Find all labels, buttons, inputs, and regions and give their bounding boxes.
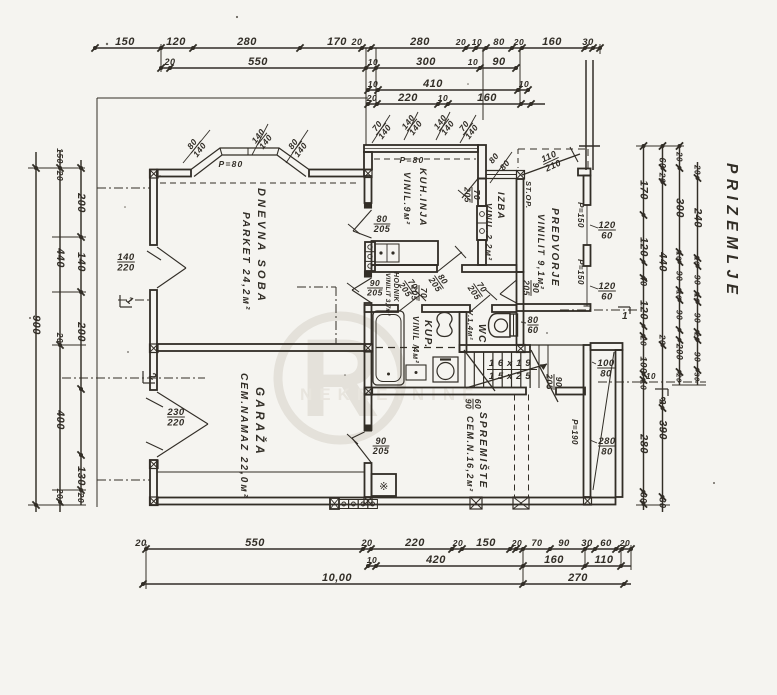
right dim col A	[638, 146, 650, 510]
section 1 right dashdot	[560, 307, 640, 322]
svg-text:140: 140	[117, 252, 135, 263]
wall step LR-kitchen	[364, 152, 372, 170]
svg-text:※: ※	[379, 481, 389, 493]
svg-text:10: 10	[675, 290, 684, 300]
label VINIL 9m2	[402, 172, 412, 226]
label SPREMISTE	[477, 412, 490, 490]
porch dashed outline	[518, 149, 588, 168]
LR interior dashdot	[297, 287, 336, 344]
label PRIZEMLJE	[723, 163, 740, 299]
toilet	[489, 314, 518, 338]
section 1 left	[97, 188, 150, 307]
svg-text:80: 80	[376, 214, 387, 224]
svg-text:60: 60	[600, 538, 612, 549]
svg-text:10: 10	[468, 57, 478, 67]
svg-text:PREDVORJE: PREDVORJE	[549, 208, 560, 288]
svg-text:140: 140	[75, 252, 87, 272]
label CEM N 162	[465, 416, 475, 493]
label V 1,4m2	[466, 310, 475, 340]
section 2 left	[62, 370, 205, 383]
svg-text:100: 100	[597, 358, 615, 369]
section dashdot bottom left	[97, 479, 150, 481]
door corridor-WC swing	[470, 290, 497, 312]
svg-text:390: 390	[657, 420, 669, 440]
svg-text:90: 90	[675, 310, 685, 320]
svg-text:VINIL.9м²: VINIL.9м²	[402, 172, 412, 226]
label 70/205 kitchen top door	[463, 186, 483, 203]
label KUP	[422, 320, 433, 349]
svg-text:10: 10	[639, 380, 649, 390]
svg-text:P=190: P=190	[570, 419, 579, 445]
svg-text:410: 410	[422, 78, 443, 90]
svg-text:280: 280	[597, 436, 616, 447]
wall spine garage upper	[365, 351, 372, 430]
right dim bottom connector	[636, 385, 706, 505]
svg-text:420: 420	[425, 554, 446, 566]
svg-text:20: 20	[511, 538, 522, 548]
svg-text:60: 60	[473, 399, 483, 409]
xbox top LR right	[364, 170, 372, 178]
svg-text:ST.OP.: ST.OP.	[524, 181, 533, 209]
wall predvorje left lower	[517, 272, 524, 345]
wall left door 140/220 opening	[147, 245, 186, 290]
label P=190	[570, 419, 579, 445]
label 140/220	[116, 252, 135, 274]
svg-text:120: 120	[598, 281, 616, 292]
door kitchen-corridor swing	[437, 246, 466, 272]
wall kitchen top	[364, 145, 478, 152]
label WC	[476, 324, 487, 344]
svg-text:VINILIT 9,1м²: VINILIT 9,1м²	[536, 214, 546, 290]
wall stairs bottom right	[556, 388, 585, 395]
svg-text:1: 1	[622, 311, 628, 322]
left dim col 440-400	[54, 148, 66, 512]
svg-text:30: 30	[658, 497, 668, 508]
wall left exterior upper	[150, 170, 157, 246]
label KUHINJA	[417, 168, 428, 227]
svg-text:KUP.: KUP.	[422, 320, 433, 349]
label HODNIK	[392, 272, 399, 303]
paper specks	[29, 16, 715, 484]
wall left garage door opening	[146, 392, 208, 457]
back door swings	[531, 350, 558, 402]
grate cells	[330, 498, 377, 509]
window P=150 lower	[576, 259, 591, 306]
svg-text:200: 200	[675, 343, 685, 361]
top dim row 4	[364, 92, 545, 108]
kitchen counter	[372, 241, 439, 265]
svg-text:10: 10	[693, 293, 702, 303]
wall left exterior mid	[150, 290, 157, 390]
terrace diagonal	[593, 352, 614, 490]
svg-text:205: 205	[366, 288, 383, 298]
svg-text:300: 300	[674, 198, 686, 218]
wall spine garage lower	[365, 463, 372, 497]
label GARAZA	[253, 387, 266, 457]
svg-text:10: 10	[368, 57, 378, 67]
svg-text:220: 220	[116, 263, 135, 274]
frame line top	[97, 97, 368, 99]
svg-text:400: 400	[54, 409, 66, 430]
xbox izba top right	[517, 171, 525, 180]
svg-text:20: 20	[55, 488, 65, 499]
svg-text:20: 20	[350, 37, 362, 47]
svg-text:60: 60	[601, 231, 613, 242]
svg-text:160: 160	[477, 92, 497, 104]
svg-text:80: 80	[527, 315, 538, 325]
svg-text:280: 280	[638, 433, 650, 454]
cabinet	[406, 365, 426, 380]
svg-text:10: 10	[646, 372, 656, 381]
svg-text:VINILIT 3,7м²: VINILIT 3,7м²	[384, 273, 391, 316]
svg-text:20: 20	[693, 331, 702, 342]
svg-text:20: 20	[55, 332, 65, 343]
entrance door swing	[522, 147, 580, 175]
svg-text:IZBA: IZBA	[495, 192, 506, 220]
svg-text:20: 20	[55, 170, 65, 181]
svg-text:280: 280	[409, 36, 430, 48]
wall right exterior upper	[584, 176, 591, 206]
svg-text:160: 160	[544, 554, 564, 566]
svg-text:30: 30	[581, 538, 593, 549]
wall bath bottom	[365, 388, 527, 395]
svg-text:70: 70	[419, 288, 429, 298]
svg-text:205: 205	[545, 373, 555, 390]
svg-text:90: 90	[370, 278, 380, 288]
chimney cells izba wall	[477, 206, 487, 240]
svg-text:70: 70	[531, 538, 542, 548]
svg-text:WC: WC	[476, 324, 487, 344]
svg-text:900: 900	[30, 315, 42, 335]
dashed lintel LR	[160, 182, 360, 184]
svg-text:KUH.INJA: KUH.INJA	[417, 168, 428, 227]
svg-text:30: 30	[639, 492, 649, 503]
svg-text:1 5 x 2 5: 1 5 x 2 5	[489, 371, 531, 382]
bath dashed line	[376, 347, 457, 349]
svg-text:20: 20	[693, 164, 702, 175]
wall spine upper	[365, 176, 372, 208]
svg-text:550: 550	[245, 537, 265, 549]
wall izba left lower	[478, 240, 486, 265]
wall spine mid	[365, 303, 372, 344]
label 70/205 wc door	[465, 277, 491, 302]
heater box	[372, 474, 397, 496]
xbox spine-garage junction	[364, 344, 372, 352]
xbox bottom shaft	[513, 497, 529, 509]
stairs risers	[465, 352, 530, 388]
wall predvorje top	[578, 169, 591, 176]
svg-text:130: 130	[75, 466, 87, 486]
svg-text:90: 90	[675, 271, 685, 281]
svg-text:P=150: P=150	[576, 202, 585, 228]
svg-text:80: 80	[600, 369, 612, 380]
svg-text:VINIL.2.2м²: VINIL.2.2м²	[484, 203, 494, 261]
svg-text:200: 200	[75, 192, 87, 213]
wall LR-garage	[157, 344, 365, 351]
left dim connectors	[28, 168, 86, 505]
washing machine	[433, 357, 458, 382]
wall corridor bottom mid	[422, 305, 470, 312]
svg-text:90: 90	[464, 399, 474, 409]
label ST.OP.	[524, 181, 533, 209]
svg-text:220: 220	[404, 537, 425, 549]
svg-text:205: 205	[372, 446, 390, 456]
svg-text:P=80: P=80	[219, 159, 244, 169]
label P=80 LR	[219, 159, 244, 169]
svg-text:20: 20	[675, 372, 684, 383]
terrace outer wall	[616, 350, 623, 497]
svg-text:20: 20	[513, 37, 524, 47]
svg-text:PRIZEMLJE: PRIZEMLJE	[723, 163, 740, 299]
xbox wc wall junction	[517, 345, 526, 353]
label VINILIT 9,1m2	[536, 214, 546, 290]
label 90/205 garage door	[372, 436, 390, 456]
svg-text:20: 20	[658, 334, 668, 345]
svg-text:110: 110	[594, 554, 613, 566]
svg-text:120: 120	[166, 36, 186, 48]
svg-text:DNEVNA SOBA: DNEVNA SOBA	[255, 188, 267, 304]
svg-text:20: 20	[163, 57, 175, 67]
washbasin	[437, 313, 452, 337]
label 100/80	[592, 358, 615, 380]
svg-text:20: 20	[455, 37, 466, 47]
top dim connectors	[161, 44, 600, 145]
wall kitchen bottom	[372, 265, 438, 272]
label 80/60 wc window	[521, 315, 539, 335]
wall kitchen top right jamb	[478, 145, 486, 179]
svg-text:150: 150	[115, 36, 135, 48]
label CEM NAMAZ	[238, 373, 249, 499]
right dim col B	[657, 146, 669, 512]
svg-text:10: 10	[438, 93, 448, 103]
labels above LR bay	[183, 124, 309, 163]
svg-text:80: 80	[601, 447, 613, 458]
xbox bottom right	[584, 497, 592, 505]
wall bath-WC	[460, 312, 467, 352]
label 70/205 bath door	[396, 274, 422, 299]
outside steps	[530, 345, 548, 388]
svg-text:90: 90	[693, 275, 703, 285]
svg-text:205: 205	[373, 224, 391, 234]
label VINIL 4m2	[411, 316, 420, 364]
label 80/205 corridor b	[426, 269, 452, 294]
xbox bath bottom left	[365, 388, 373, 396]
door corridor-bath swing	[398, 290, 426, 312]
svg-text:VINIL /4м²: VINIL /4м²	[411, 316, 420, 364]
svg-text:550: 550	[248, 56, 268, 68]
svg-text:205: 205	[463, 186, 473, 203]
svg-text:10: 10	[367, 555, 377, 565]
terrace top wall	[591, 343, 623, 350]
svg-text:60: 60	[658, 157, 668, 168]
svg-text:10: 10	[368, 79, 378, 89]
wall WC bottom	[460, 345, 531, 352]
wall predvorje left	[517, 179, 524, 272]
wall bottom exterior	[157, 498, 616, 505]
svg-text:20: 20	[76, 492, 86, 503]
svg-text:20: 20	[619, 538, 630, 548]
svg-text:R: R	[300, 317, 379, 440]
svg-text:90: 90	[375, 436, 386, 446]
labels 80 80 izba window	[487, 151, 512, 183]
svg-text:120: 120	[638, 237, 650, 257]
left dim col 900	[30, 152, 42, 512]
label 70/205 kitchen door a	[410, 284, 430, 301]
svg-text:240: 240	[692, 207, 704, 228]
xbox left mid	[150, 344, 159, 353]
wall left exterior lower	[150, 460, 157, 505]
svg-text:150: 150	[476, 537, 496, 549]
svg-text:2: 2	[659, 396, 666, 407]
door kitchen top-right swing	[458, 179, 478, 201]
svg-text:10,00: 10,00	[322, 572, 352, 584]
wall right lower exterior	[584, 345, 591, 497]
svg-text:90: 90	[554, 377, 564, 387]
storage shaft dashed	[515, 395, 529, 498]
label 60/90 storage	[464, 399, 484, 410]
xbox left low	[150, 460, 159, 469]
svg-text:1 6 x 1 9: 1 6 x 1 9	[489, 358, 531, 369]
door garage-storage swing	[347, 425, 372, 463]
svg-text:200: 200	[75, 321, 87, 342]
label 120/60 lower	[590, 281, 616, 303]
svg-text:10: 10	[472, 37, 482, 47]
svg-text:300: 300	[416, 56, 436, 68]
svg-text:20: 20	[134, 538, 147, 549]
label DNEVNA SOBA	[255, 188, 267, 304]
xbox left bottom	[150, 497, 159, 506]
svg-text:440: 440	[657, 251, 669, 272]
bay window living room	[191, 148, 309, 177]
svg-text:20: 20	[360, 538, 372, 548]
wall predvorje bottom	[517, 304, 591, 311]
right dim col C	[674, 146, 686, 385]
label 280/80	[590, 436, 616, 458]
svg-text:230: 230	[166, 407, 185, 418]
label P=80 kitchen	[400, 155, 425, 165]
svg-text:GARAŽA: GARAŽA	[253, 387, 266, 457]
svg-text:10: 10	[675, 251, 684, 261]
label 110/210	[538, 148, 562, 174]
svg-text:PARKET 24,2м²: PARKET 24,2м²	[240, 212, 251, 311]
section 2 right dashdot	[598, 372, 706, 407]
wall corridor bottom left	[365, 305, 399, 312]
wall kitchen bottom right	[462, 265, 517, 272]
top dim row 2	[157, 56, 519, 72]
right dim col D	[692, 162, 704, 385]
bottom dim row A	[134, 537, 634, 553]
svg-text:205: 205	[522, 279, 532, 296]
svg-text:40: 40	[639, 274, 649, 286]
svg-text:220: 220	[397, 92, 418, 104]
svg-text:160: 160	[542, 36, 562, 48]
label 120/60 upper	[590, 220, 616, 242]
wall izba left upper	[478, 179, 486, 207]
window P=150 upper	[576, 202, 591, 245]
label IZBA	[495, 192, 506, 220]
wall corridor bottom right	[492, 305, 517, 312]
svg-text:20: 20	[675, 151, 684, 162]
svg-text:20: 20	[452, 538, 463, 548]
svg-text:30: 30	[693, 372, 702, 382]
labels above kitchen wall	[368, 112, 480, 143]
bathtub	[373, 311, 404, 385]
label VINIL 2.2m2	[484, 203, 494, 261]
watermark letter R	[300, 317, 379, 440]
svg-text:CEM.NAMAZ 22,0м²: CEM.NAMAZ 22,0м²	[238, 373, 249, 499]
svg-text:90: 90	[693, 352, 703, 362]
wall stairs top right	[530, 344, 591, 346]
frame line left	[96, 98, 98, 507]
right dim top connector	[636, 142, 684, 149]
svg-text:HODNIK: HODNIK	[392, 272, 399, 303]
watermark wordmark	[300, 385, 481, 404]
svg-text:170: 170	[638, 180, 650, 200]
svg-text:60: 60	[527, 325, 538, 335]
svg-text:10: 10	[693, 256, 702, 266]
svg-text:170: 170	[327, 36, 347, 48]
svg-text:90: 90	[558, 538, 570, 549]
xbox left top	[150, 170, 159, 179]
label PREDVORJE	[549, 208, 560, 288]
svg-text:P=80: P=80	[400, 155, 425, 165]
svg-text:120: 120	[638, 300, 650, 320]
wall right exterior mid	[584, 245, 591, 266]
xbox bottom spine	[364, 497, 372, 505]
svg-text:150: 150	[55, 148, 65, 164]
svg-text:120: 120	[598, 220, 616, 231]
label 90/205 corridor door	[366, 278, 383, 298]
label 80/205 LR door	[373, 214, 391, 234]
svg-text:SPREMIŠTE: SPREMIŠTE	[477, 412, 490, 490]
bottom dim connectors	[146, 544, 631, 589]
watermark logo ring	[278, 316, 402, 440]
top right double line	[579, 60, 600, 170]
svg-text:280: 280	[236, 36, 257, 48]
label VINILIT 37	[384, 273, 391, 316]
wall top LR left part	[157, 170, 191, 177]
label 90/205 back door	[545, 373, 565, 390]
svg-text:V.1,4м²: V.1,4м²	[466, 310, 475, 340]
label 230/220	[166, 407, 185, 429]
svg-text:80: 80	[493, 37, 505, 48]
dashed lintel kitchen	[374, 158, 476, 160]
svg-text:70: 70	[472, 190, 482, 200]
wall top LR right part	[309, 170, 364, 177]
xbox bottom storage	[470, 497, 482, 509]
svg-text:440: 440	[54, 247, 66, 268]
label PARKET 24,2m2	[240, 212, 251, 311]
window izba top	[486, 171, 517, 179]
svg-text:20: 20	[639, 335, 649, 346]
top dim row 1	[91, 36, 603, 52]
garage floor line	[157, 471, 365, 473]
wall spine jamb	[365, 271, 372, 277]
svg-text:20: 20	[658, 172, 668, 183]
bottom dim row C	[139, 572, 631, 588]
stairs labels	[487, 358, 537, 382]
svg-text:60: 60	[601, 292, 613, 303]
top dim row 3	[364, 78, 531, 94]
bottom dim row B	[364, 554, 631, 570]
door LR-kitchen swing	[348, 210, 372, 238]
label 90/205 predvorje door	[522, 279, 542, 296]
svg-text:270: 270	[567, 572, 588, 584]
door LR-corridor swing	[347, 278, 372, 303]
svg-text:CEM.N.16,2м²: CEM.N.16,2м²	[465, 416, 475, 493]
svg-text:220: 220	[166, 418, 185, 429]
svg-text:P=150: P=150	[576, 259, 585, 285]
